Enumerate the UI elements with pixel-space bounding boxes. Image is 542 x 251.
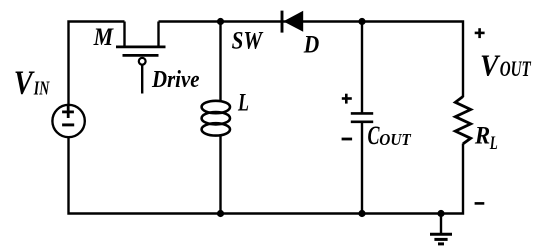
svg-text:Drive: Drive bbox=[151, 67, 200, 93]
svg-text:IN: IN bbox=[33, 77, 50, 99]
node inductor bottom junction dot bbox=[217, 210, 224, 217]
svg-text:OUT: OUT bbox=[379, 130, 411, 149]
svg-text:D: D bbox=[303, 32, 319, 59]
capacitor polarity plus bbox=[342, 94, 352, 104]
svg-text:SW: SW bbox=[232, 27, 264, 54]
ground bbox=[430, 214, 452, 244]
output polarity plus (top right) bbox=[475, 28, 485, 38]
capacitor C_OUT plates bbox=[351, 113, 373, 121]
svg-text:R: R bbox=[474, 122, 490, 149]
svg-text:V: V bbox=[480, 47, 501, 82]
svg-text:L: L bbox=[489, 133, 498, 154]
node ground junction dot bbox=[437, 210, 444, 217]
transistor M (PMOS switch) bbox=[116, 22, 166, 94]
wire top-mid segment (M drain to SW node to diode to output corner, down to resistor) bbox=[159, 22, 464, 98]
svg-text:C: C bbox=[368, 120, 380, 150]
diode D bbox=[282, 11, 303, 33]
label R_L bbox=[474, 122, 498, 154]
svg-text:M: M bbox=[93, 24, 114, 51]
label V_OUT bbox=[480, 47, 532, 82]
svg-text:L: L bbox=[237, 89, 249, 116]
node SW junction dot bbox=[217, 18, 224, 25]
node Cout bottom junction dot bbox=[358, 210, 365, 217]
inductor L (3 loops) bbox=[202, 101, 230, 136]
capacitor polarity minus bbox=[342, 138, 353, 141]
output polarity minus (bottom right) bbox=[475, 202, 485, 205]
svg-text:V: V bbox=[14, 65, 35, 102]
svg-text:OUT: OUT bbox=[500, 56, 532, 81]
resistor R_L zigzag bbox=[455, 97, 470, 144]
wire inductor bottom to rail bbox=[219, 135, 221, 214]
wire left branch lower, bottom rail, right branch lower (resistor to rail) bbox=[69, 137, 464, 214]
node Cout top junction dot bbox=[358, 18, 365, 25]
label V_IN bbox=[14, 65, 51, 102]
wire Cout branch upper bbox=[361, 22, 363, 113]
voltage source V_IN bbox=[52, 105, 84, 137]
wire SW node down to inductor bbox=[219, 22, 221, 103]
wire Cout branch lower bbox=[361, 123, 363, 214]
wire top-left segment (Vin to M source) bbox=[69, 22, 125, 106]
label C_OUT bbox=[368, 120, 412, 150]
